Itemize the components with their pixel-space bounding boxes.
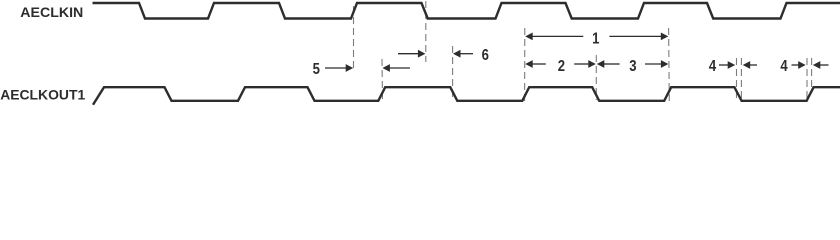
svg-text:6: 6 <box>482 47 489 64</box>
svg-text:4: 4 <box>709 58 716 75</box>
dashed reference line D2 at AECLKOUT1 rising edge <box>381 59 384 101</box>
dashed reference line D7 at AECLKOUT1 rising edge <box>668 28 671 101</box>
dashed reference line D8 start of AECLKOUT1 fall <box>736 58 738 101</box>
timing arrow 5 right part <box>382 64 390 72</box>
dashed reference line D1 at AECLKIN rising edge <box>353 6 355 70</box>
svg-text:4: 4 <box>780 58 787 75</box>
timing arrow 1 double-headed with label <box>525 33 533 41</box>
dashed reference line D5 at AECLKOUT1 rising edge <box>524 28 526 101</box>
svg-text:AECLKIN: AECLKIN <box>20 4 83 20</box>
svg-text:3: 3 <box>629 58 636 75</box>
AECLKIN waveform <box>93 3 840 19</box>
timing arrow 2 double-headed with label <box>525 60 533 68</box>
svg-text:1: 1 <box>592 30 599 47</box>
timing arrow 6 right part with label <box>453 50 461 58</box>
dashed reference line D9 end of AECLKOUT1 fall <box>740 58 742 101</box>
dashed reference line D10 start of AECLKOUT1 rise <box>806 58 808 101</box>
svg-text:AECLKOUT1: AECLKOUT1 <box>0 86 85 102</box>
dashed reference line D11 end of AECLKOUT1 rise <box>811 58 813 93</box>
AECLKOUT1 waveform <box>93 87 840 105</box>
timing arrow 6 left part <box>398 53 419 55</box>
dashed reference line D3 at AECLKIN falling edge <box>425 1 427 62</box>
svg-text:5: 5 <box>313 61 320 78</box>
timing arrow 3 double-headed with label <box>597 60 605 68</box>
dashed reference line D6 at AECLKOUT1 falling edge <box>595 55 597 100</box>
dashed reference line D4 at AECLKOUT1 falling edge <box>452 46 454 101</box>
svg-text:2: 2 <box>558 58 565 75</box>
